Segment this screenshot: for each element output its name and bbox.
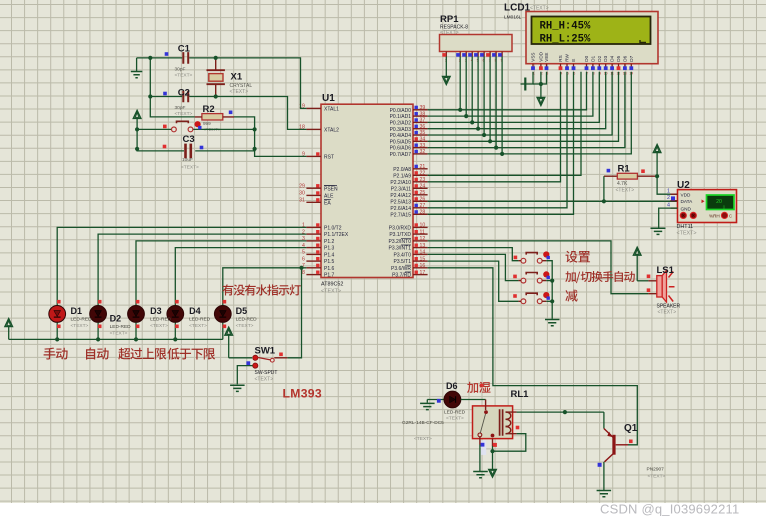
svg-text:P0.4/AD4: P0.4/AD4: [390, 133, 412, 139]
svg-text:17: 17: [420, 270, 426, 276]
svg-text:G2RL-14B-CF-DC5: G2RL-14B-CF-DC5: [402, 420, 444, 426]
svg-text:AT89C52: AT89C52: [321, 282, 343, 288]
svg-text:PSEN: PSEN: [324, 186, 338, 192]
svg-text:ALE: ALE: [324, 194, 334, 200]
svg-text:D6: D6: [622, 55, 627, 61]
svg-text:P2.2/A10: P2.2/A10: [390, 180, 411, 186]
svg-text:D2: D2: [110, 314, 122, 324]
svg-text:GND: GND: [681, 206, 692, 211]
svg-text:29: 29: [299, 183, 305, 189]
svg-text:8: 8: [302, 270, 305, 276]
svg-text:P2.3/A11: P2.3/A11: [391, 186, 411, 192]
svg-text:<TEXT>: <TEXT>: [236, 323, 254, 329]
svg-text:VSS: VSS: [531, 52, 536, 61]
svg-text:<TEXT>: <TEXT>: [658, 310, 677, 316]
svg-text:P1.2: P1.2: [324, 239, 335, 245]
svg-text:RH_H:45%: RH_H:45%: [540, 20, 592, 32]
svg-text:<TEXT>: <TEXT>: [150, 323, 168, 329]
svg-text:4.7K: 4.7K: [617, 181, 628, 187]
svg-text:P3.0/RXD: P3.0/RXD: [389, 226, 412, 232]
svg-text:E: E: [571, 59, 576, 62]
svg-text:20: 20: [716, 199, 722, 205]
svg-text:<TEXT>: <TEXT>: [677, 231, 697, 237]
svg-text:10: 10: [420, 223, 426, 229]
svg-text:P2.5/A13: P2.5/A13: [390, 199, 411, 205]
svg-text:P2.1/A9: P2.1/A9: [393, 173, 411, 179]
svg-text:4: 4: [667, 202, 670, 208]
svg-text:P3.6/WR: P3.6/WR: [391, 266, 411, 272]
svg-text:D4: D4: [610, 55, 615, 61]
svg-text:<TEXT>: <TEXT>: [175, 111, 193, 117]
svg-text:LED-RED: LED-RED: [71, 317, 93, 323]
svg-text:RST: RST: [324, 155, 334, 161]
svg-text:23: 23: [420, 177, 426, 183]
svg-text:XTAL1: XTAL1: [324, 107, 339, 113]
svg-text:<TEXT>: <TEXT>: [530, 6, 549, 12]
svg-text:P3.7/RD: P3.7/RD: [392, 273, 411, 279]
svg-text:PN2907: PN2907: [647, 466, 665, 472]
svg-text:VEE: VEE: [544, 52, 549, 61]
svg-text:15: 15: [420, 256, 426, 262]
svg-text:<TEXT>: <TEXT>: [175, 73, 193, 79]
svg-text:VDD: VDD: [681, 192, 692, 197]
svg-text:LS1: LS1: [657, 265, 675, 276]
svg-text:6: 6: [302, 256, 305, 262]
svg-text:R1: R1: [618, 164, 631, 175]
svg-text:28: 28: [420, 210, 426, 216]
svg-text:36: 36: [420, 124, 426, 130]
svg-text:RL1: RL1: [511, 389, 530, 400]
svg-text:RW: RW: [565, 53, 570, 61]
svg-text:14: 14: [420, 250, 426, 256]
svg-text:P0.3/AD3: P0.3/AD3: [390, 127, 412, 133]
svg-text:DHT11: DHT11: [677, 224, 694, 230]
svg-text:P2.0/A8: P2.0/A8: [393, 167, 411, 173]
svg-text:P3.5/T1: P3.5/T1: [393, 259, 411, 265]
svg-text:<TEXT>: <TEXT>: [181, 164, 199, 170]
svg-text:P3.1/TXD: P3.1/TXD: [389, 232, 411, 238]
svg-text:P1.5: P1.5: [324, 259, 335, 265]
svg-text:RP1: RP1: [440, 14, 459, 25]
svg-text:P1.1/T2EX: P1.1/T2EX: [324, 232, 349, 238]
svg-text:RS: RS: [558, 55, 563, 61]
svg-text:32: 32: [420, 149, 426, 155]
svg-text:P0.6/AD6: P0.6/AD6: [390, 146, 412, 152]
svg-text:D3: D3: [603, 55, 608, 61]
svg-text:P1.7: P1.7: [324, 273, 335, 279]
svg-text:LCD1: LCD1: [504, 3, 531, 14]
svg-text:P2.6/A14: P2.6/A14: [390, 206, 411, 212]
svg-text:P2.7/A15: P2.7/A15: [390, 212, 411, 218]
svg-text:P1.4: P1.4: [324, 253, 335, 259]
svg-text:C1: C1: [178, 44, 191, 55]
svg-text:SW-SPDT: SW-SPDT: [255, 370, 278, 376]
svg-text:34: 34: [420, 137, 426, 143]
svg-text:22: 22: [420, 171, 426, 177]
svg-text:26: 26: [420, 197, 426, 203]
svg-text:<TEXT>: <TEXT>: [189, 323, 207, 329]
svg-text:DATA: DATA: [681, 199, 694, 204]
svg-text:P0.1/AD1: P0.1/AD1: [390, 114, 412, 120]
svg-text:P1.0/T2: P1.0/T2: [324, 226, 342, 232]
svg-text:24: 24: [420, 184, 426, 190]
svg-text:<TEXT>: <TEXT>: [230, 89, 249, 95]
svg-text:25: 25: [420, 190, 426, 196]
svg-text:RH_L:25%: RH_L:25%: [540, 33, 592, 45]
svg-text:<TEXT>: <TEXT>: [446, 416, 464, 422]
svg-text:EA: EA: [324, 200, 331, 206]
svg-text:P0.0/AD0: P0.0/AD0: [390, 108, 412, 114]
svg-text:D1: D1: [71, 306, 83, 316]
svg-text:P0.2/AD2: P0.2/AD2: [390, 121, 412, 127]
svg-text:30: 30: [299, 191, 305, 197]
svg-text:LM393: LM393: [283, 387, 322, 401]
svg-text:D5: D5: [236, 306, 248, 316]
svg-text:D1: D1: [590, 55, 595, 61]
svg-text:13: 13: [420, 243, 426, 249]
svg-text:35: 35: [420, 130, 426, 136]
svg-text:33: 33: [420, 143, 426, 149]
svg-text:11: 11: [420, 229, 425, 235]
svg-text:<TEXT>: <TEXT>: [648, 474, 666, 480]
svg-text:999: 999: [203, 121, 211, 126]
svg-text:10uF: 10uF: [182, 157, 193, 163]
svg-text:Q1: Q1: [624, 423, 638, 434]
svg-text:27: 27: [420, 203, 426, 209]
svg-text:XTAL2: XTAL2: [324, 128, 339, 134]
svg-text:P0.7/AD7: P0.7/AD7: [390, 152, 412, 158]
svg-text:P1.6: P1.6: [324, 266, 335, 272]
svg-text:P3.4/T0: P3.4/T0: [393, 253, 411, 259]
svg-text:C2: C2: [178, 88, 190, 99]
svg-text:1: 1: [667, 188, 670, 194]
svg-text:X1: X1: [231, 72, 243, 83]
svg-text:%RH: %RH: [709, 213, 720, 218]
svg-text:<TEXT>: <TEXT>: [440, 30, 459, 36]
svg-text:12: 12: [420, 236, 426, 242]
svg-text:<TEXT>: <TEXT>: [71, 323, 89, 329]
svg-text:P3.2/INT0: P3.2/INT0: [388, 239, 411, 245]
svg-text:D7: D7: [629, 55, 634, 61]
svg-text:P3.3/INT1: P3.3/INT1: [388, 246, 411, 252]
svg-text:P2.4/A12: P2.4/A12: [390, 193, 411, 199]
svg-text:C: C: [729, 213, 732, 218]
svg-text:38: 38: [420, 111, 426, 117]
svg-text:LED-RED: LED-RED: [150, 317, 172, 323]
svg-text:D3: D3: [150, 306, 162, 316]
svg-text:D6: D6: [446, 381, 458, 391]
svg-text:2: 2: [667, 195, 670, 201]
svg-text:CRYSTAL: CRYSTAL: [230, 83, 253, 89]
svg-text:R2: R2: [203, 104, 215, 115]
svg-text:D0: D0: [584, 55, 589, 61]
svg-text:30pF: 30pF: [175, 67, 186, 73]
svg-text:37: 37: [420, 118, 426, 124]
svg-text:<TEXT>: <TEXT>: [255, 377, 274, 383]
svg-text:SW1: SW1: [255, 346, 276, 357]
svg-text:D2: D2: [597, 55, 602, 61]
svg-text:U1: U1: [322, 93, 335, 104]
svg-text:D5: D5: [616, 55, 621, 61]
svg-text:C3: C3: [183, 134, 195, 145]
svg-text:<TEXT>: <TEXT>: [414, 436, 432, 442]
svg-text:5: 5: [302, 250, 305, 256]
svg-text:P0.5/AD5: P0.5/AD5: [390, 139, 412, 145]
svg-text:<TEXT>: <TEXT>: [110, 330, 128, 336]
svg-text:21: 21: [420, 164, 426, 170]
svg-text:30pF: 30pF: [175, 105, 186, 111]
svg-text:LED-RED: LED-RED: [444, 409, 466, 415]
svg-text:31: 31: [299, 198, 305, 204]
svg-text:LM016L: LM016L: [504, 15, 522, 21]
svg-text:U2: U2: [677, 180, 690, 191]
svg-text:D4: D4: [189, 306, 201, 316]
svg-text:<TEXT>: <TEXT>: [616, 188, 635, 194]
svg-text:LED-RED: LED-RED: [236, 317, 258, 323]
svg-text:LED-RED: LED-RED: [110, 324, 132, 330]
svg-text:<TEXT>: <TEXT>: [321, 289, 341, 295]
svg-text:P1.3: P1.3: [324, 246, 335, 252]
svg-text:LED-RED: LED-RED: [189, 317, 211, 323]
svg-text:VDD: VDD: [538, 51, 543, 61]
svg-text:39: 39: [420, 105, 426, 111]
svg-text:16: 16: [420, 263, 426, 269]
svg-text:CSDN @q_I039692211: CSDN @q_I039692211: [600, 502, 739, 517]
